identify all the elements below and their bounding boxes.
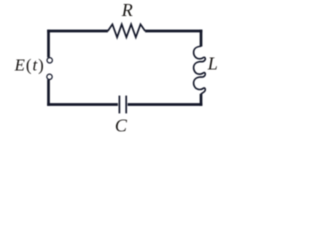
wire bottom-left segment	[47, 103, 118, 106]
capacitor C1 right plate	[125, 96, 127, 114]
svg-text:R: R	[121, 0, 133, 20]
svg-text:E(t): E(t)	[14, 55, 45, 74]
wire left upper segment	[47, 30, 50, 58]
source terminal upper circle	[47, 58, 52, 63]
wire right upper segment	[200, 30, 203, 47]
wire top-left segment	[47, 30, 108, 33]
inductor L1 coil	[194, 46, 206, 94]
wire top-right segment	[145, 30, 202, 33]
capacitor C1 left plate	[118, 96, 120, 114]
wire left lower segment	[47, 80, 50, 106]
svg-text:L: L	[207, 53, 218, 73]
wire right lower segment	[200, 94, 203, 106]
source terminal lower circle	[47, 74, 52, 79]
resistor R1 zigzag	[108, 24, 145, 37]
svg-text:C: C	[115, 116, 128, 136]
wire bottom-right segment	[128, 103, 203, 106]
